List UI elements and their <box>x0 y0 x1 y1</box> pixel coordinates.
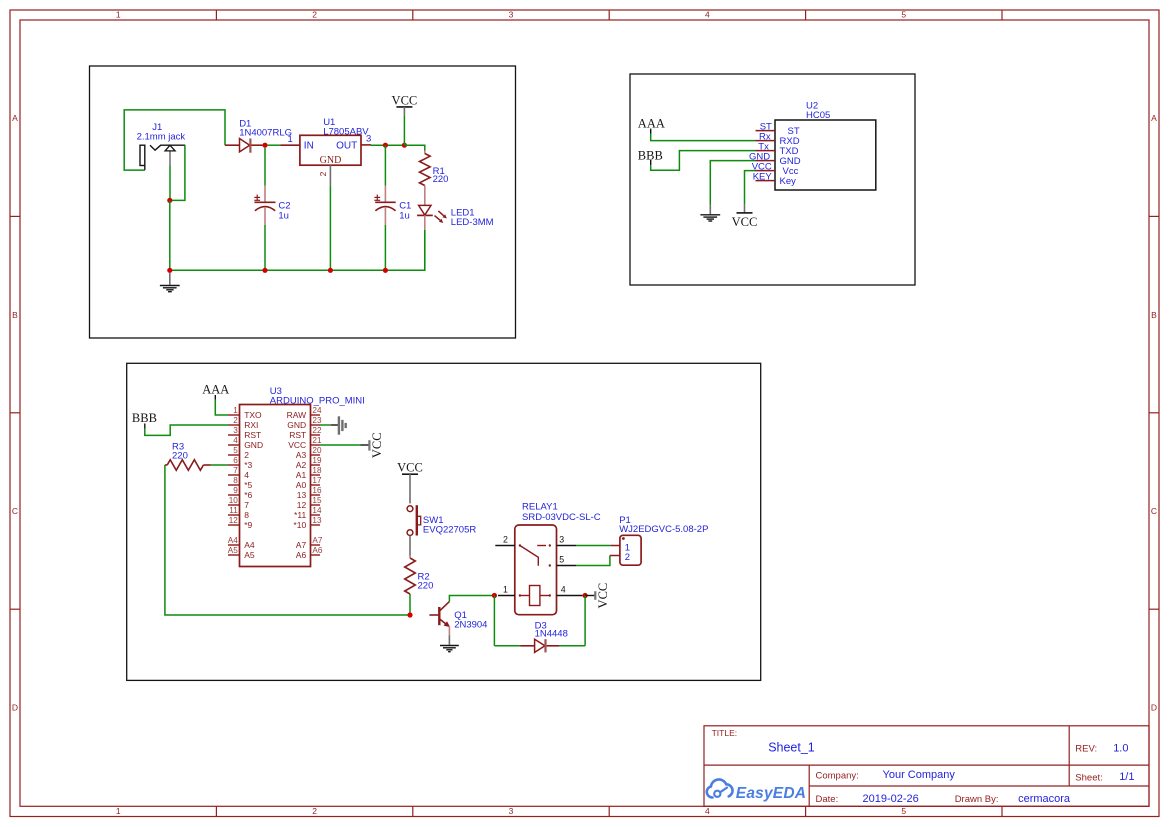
wire VCC to OUT net <box>403 115 405 145</box>
resistor R3 220 <box>165 441 188 465</box>
svg-text:GND: GND <box>287 420 306 430</box>
svg-text:8: 8 <box>233 476 238 485</box>
pin 13 *10 of U3 <box>293 516 322 530</box>
transistor Q1 2N3904 <box>429 602 487 631</box>
svg-text:21: 21 <box>312 436 322 445</box>
svg-text:12: 12 <box>229 516 239 525</box>
switch SW1 EVQ22705R <box>407 505 476 535</box>
svg-text:A: A <box>12 113 18 123</box>
svg-text:20: 20 <box>312 446 322 455</box>
svg-text:B: B <box>1151 310 1157 320</box>
pin 10 7 of U3 <box>228 496 249 510</box>
wire AAA to pin 1 <box>215 400 228 415</box>
pin GND of U2 <box>756 160 776 162</box>
node VCC junction <box>402 143 407 148</box>
svg-text:IN: IN <box>304 141 314 152</box>
svg-text:*9: *9 <box>244 520 252 530</box>
resistor R2 220 <box>409 556 411 559</box>
svg-text:VCC: VCC <box>392 94 418 108</box>
svg-text:A1: A1 <box>296 470 307 480</box>
pin Key of U2 <box>756 180 776 182</box>
svg-text:RELAY1: RELAY1 <box>522 501 558 512</box>
svg-text:SRD-03VDC-SL-C: SRD-03VDC-SL-C <box>522 512 601 523</box>
svg-text:7: 7 <box>244 500 249 510</box>
svg-text:GND: GND <box>320 155 342 166</box>
svg-text:14: 14 <box>312 506 322 515</box>
pin 8 *5 of U3 <box>228 476 253 490</box>
svg-text:Company:: Company: <box>816 770 859 781</box>
svg-text:A6: A6 <box>312 546 322 555</box>
svg-text:A4: A4 <box>244 540 255 550</box>
svg-text:9: 9 <box>233 486 238 495</box>
net flag BBB (arduino) <box>132 411 157 429</box>
svg-text:A3: A3 <box>296 450 307 460</box>
svg-text:WJ2EDGVC-5.08-2P: WJ2EDGVC-5.08-2P <box>619 524 708 535</box>
svg-text:VCC: VCC <box>732 215 758 229</box>
svg-text:4: 4 <box>705 10 710 20</box>
wire AAA to RXD <box>651 134 756 141</box>
wire U1 GND to rail <box>329 185 331 270</box>
svg-text:2: 2 <box>318 171 328 176</box>
svg-text:A5: A5 <box>244 550 255 560</box>
pin 16 13 of U3 <box>297 486 322 500</box>
node relay pin1 junction <box>492 593 497 598</box>
svg-text:3: 3 <box>233 426 238 435</box>
svg-text:2: 2 <box>244 450 249 460</box>
wire BBB to TXD <box>651 151 756 171</box>
pin RXD of U2 <box>756 140 776 142</box>
svg-text:*3: *3 <box>244 460 252 470</box>
pin 5 of RELAY1 <box>557 554 577 565</box>
svg-text:10: 10 <box>229 496 239 505</box>
svg-text:1u: 1u <box>278 210 289 221</box>
node J1 junction <box>167 198 172 203</box>
EasyEDA logo <box>707 779 806 801</box>
wire SW1 to R2 <box>409 536 411 556</box>
svg-text:cermacora: cermacora <box>1018 793 1071 805</box>
svg-text:VCC: VCC <box>288 440 306 450</box>
svg-text:2: 2 <box>312 806 317 816</box>
svg-text:4: 4 <box>705 806 710 816</box>
pin 12 *9 of U3 <box>228 516 253 530</box>
svg-text:Drawn By:: Drawn By: <box>955 794 999 805</box>
bluetooth section box <box>630 74 915 285</box>
svg-text:2: 2 <box>503 534 508 544</box>
pin 9 *6 of U3 <box>228 486 253 500</box>
svg-text:1N4448: 1N4448 <box>535 629 568 640</box>
pin 4 of RELAY1 <box>557 584 583 595</box>
pin 6 *3 of U3 <box>228 456 253 470</box>
wire Q1 emitter lead <box>448 626 450 635</box>
power supply section box <box>90 66 516 338</box>
svg-text:1: 1 <box>503 584 508 594</box>
svg-text:A2: A2 <box>296 460 307 470</box>
pin A5 of U3 left <box>228 546 255 560</box>
svg-text:220: 220 <box>172 450 188 461</box>
IC U3 ARDUINO_PRO_MINI <box>240 386 365 566</box>
svg-text:EVQ22705R: EVQ22705R <box>423 525 476 536</box>
diode D1 1N4007RLG <box>225 118 292 152</box>
pin 2 GND stub of U1 <box>329 165 331 185</box>
wire J1 tip down <box>169 166 171 201</box>
svg-text:*5: *5 <box>244 480 252 490</box>
wire GND of U2 <box>710 161 755 206</box>
svg-text:A: A <box>1151 113 1157 123</box>
svg-text:RST: RST <box>289 430 306 440</box>
svg-text:19: 19 <box>312 456 322 465</box>
wire J1 sleeve loop to D1 <box>124 110 225 170</box>
capacitor C2 1u <box>254 148 290 225</box>
pin 19 A2 of U3 <box>296 456 322 470</box>
ground symbol Q1 <box>440 635 459 651</box>
ground symbol HC05 <box>700 205 720 221</box>
svg-text:3: 3 <box>366 134 371 145</box>
svg-text:BBB: BBB <box>132 411 157 425</box>
wire R3 down to base rail <box>165 465 410 615</box>
connector J1 2.1mm jack <box>137 122 186 170</box>
pin A4 of U3 left <box>228 536 255 550</box>
svg-text:*11: *11 <box>294 510 306 520</box>
svg-text:A7: A7 <box>296 540 307 550</box>
svg-text:2: 2 <box>312 10 317 20</box>
svg-text:24: 24 <box>312 406 322 415</box>
pin TXD of U2 <box>756 150 776 152</box>
svg-text:5: 5 <box>901 10 906 20</box>
svg-text:A6: A6 <box>296 550 307 560</box>
svg-text:1.0: 1.0 <box>1113 743 1128 755</box>
wire relay pin4 to VCC <box>582 595 585 597</box>
svg-text:1: 1 <box>233 406 238 415</box>
node relay pin4 junction <box>583 593 588 598</box>
svg-text:2.1mm jack: 2.1mm jack <box>137 131 186 142</box>
svg-text:Date:: Date: <box>816 794 839 805</box>
pin 21 VCC of U3 <box>288 436 322 450</box>
svg-text:1: 1 <box>288 134 293 145</box>
svg-text:VCC: VCC <box>370 432 384 458</box>
node D1 cathode junction <box>262 143 267 148</box>
wire J1 right branch <box>170 145 185 200</box>
svg-text:TITLE:: TITLE: <box>712 728 738 738</box>
svg-text:1: 1 <box>116 806 121 816</box>
svg-text:D: D <box>12 703 18 713</box>
svg-text:4: 4 <box>244 470 249 480</box>
svg-text:TXO: TXO <box>244 410 262 420</box>
net flag AAA (arduino) <box>202 383 229 400</box>
svg-text:1u: 1u <box>399 210 410 221</box>
pin 11 8 of U3 <box>228 506 249 520</box>
power flag VCC above SW1 <box>397 461 423 504</box>
wire R3 to pin 6 <box>211 464 229 466</box>
svg-text:13: 13 <box>312 516 322 525</box>
wire J1 to ground rail <box>169 200 171 270</box>
svg-text:220: 220 <box>433 174 449 185</box>
svg-text:B: B <box>12 310 18 320</box>
svg-text:KEY: KEY <box>753 171 773 182</box>
wire LED1 to rail <box>424 230 426 270</box>
svg-text:2N3904: 2N3904 <box>454 620 487 631</box>
title block <box>704 726 1149 807</box>
svg-text:16: 16 <box>312 486 322 495</box>
pin 17 A0 of U3 <box>296 476 322 490</box>
svg-text:RST: RST <box>244 430 261 440</box>
wire C1 to rail <box>384 225 386 270</box>
power flag VCC pin 21 (rotated) <box>320 432 384 458</box>
power flag VCC top <box>392 94 418 116</box>
svg-text:11: 11 <box>229 506 238 515</box>
svg-text:23: 23 <box>312 416 322 425</box>
svg-text:A5: A5 <box>228 546 238 555</box>
pin 2 of RELAY1 <box>495 534 515 545</box>
svg-text:OUT: OUT <box>336 141 357 152</box>
net flag BBB (HC05) <box>638 148 663 165</box>
svg-text:*10: *10 <box>293 520 306 530</box>
svg-text:Sheet:: Sheet: <box>1075 773 1102 784</box>
svg-text:22: 22 <box>312 426 322 435</box>
svg-text:1: 1 <box>116 10 121 20</box>
pin 18 A1 of U3 <box>296 466 322 480</box>
pin 5 2 of U3 <box>228 446 249 460</box>
resistor R1 220 <box>404 145 424 153</box>
regulator U1 L7805ABV <box>300 117 369 166</box>
node base junction <box>407 612 412 617</box>
svg-text:*6: *6 <box>244 490 252 500</box>
wire C2 to rail <box>264 225 266 270</box>
svg-text:2: 2 <box>233 416 238 425</box>
pin 14 *11 of U3 <box>294 506 322 520</box>
ground symbol power <box>160 273 180 292</box>
wire relay pin4 down to D3 <box>584 596 586 646</box>
wire ground rail <box>170 230 425 270</box>
net flag AAA (HC05) <box>638 117 665 134</box>
node C1 top junction <box>383 143 388 148</box>
svg-text:EasyEDA: EasyEDA <box>736 785 806 802</box>
svg-text:3: 3 <box>509 806 514 816</box>
svg-text:4: 4 <box>233 436 238 445</box>
svg-text:GND: GND <box>244 440 263 450</box>
svg-text:1N4007RLG: 1N4007RLG <box>239 127 292 138</box>
svg-text:VCC: VCC <box>596 583 610 609</box>
wire U1 OUT <box>361 144 371 146</box>
pin 4 GND of U3 <box>228 436 263 450</box>
diode D3 1N4448 <box>494 621 585 653</box>
pin 1 TXO of U3 <box>228 406 262 420</box>
pin 22 RST of U3 <box>289 426 322 440</box>
pin 7 4 of U3 <box>228 466 249 480</box>
connector P1 WJ2EDGVC-5.08-2P <box>619 515 708 565</box>
svg-text:15: 15 <box>312 496 322 505</box>
pin 23 GND of U3 <box>287 416 322 430</box>
pin 20 A3 of U3 <box>296 446 322 460</box>
svg-text:5: 5 <box>233 446 238 455</box>
svg-text:RAW: RAW <box>287 410 307 420</box>
pin 2 RXI of U3 <box>228 416 258 430</box>
IC U2 HC05 <box>775 100 876 190</box>
svg-text:2: 2 <box>625 552 630 563</box>
svg-text:VCC: VCC <box>397 461 423 475</box>
ground flag pin 23 <box>320 416 346 434</box>
wire relay pin5 to P1 pin2 <box>576 556 620 566</box>
node rail junctions <box>167 268 172 273</box>
svg-text:8: 8 <box>244 510 249 520</box>
svg-text:Key: Key <box>780 176 797 187</box>
svg-text:1/1: 1/1 <box>1119 771 1134 783</box>
pin ST of U2 <box>756 130 776 132</box>
pin 3 RST of U3 <box>228 426 261 440</box>
pin 15 12 of U3 <box>297 496 322 510</box>
relay RELAY1 SRD-03VDC-SL-C <box>515 501 601 614</box>
svg-text:12: 12 <box>297 500 307 510</box>
svg-text:7: 7 <box>233 466 238 475</box>
arduino section box <box>127 363 761 680</box>
pin 3 of RELAY1 <box>557 534 577 545</box>
svg-text:3: 3 <box>559 534 564 544</box>
svg-text:18: 18 <box>312 466 322 475</box>
pin Vcc of U2 <box>756 170 776 172</box>
wire R2 to base rail <box>409 594 411 615</box>
svg-text:Sheet_1: Sheet_1 <box>768 740 815 754</box>
svg-text:2019-02-26: 2019-02-26 <box>863 793 919 805</box>
pin 1 of RELAY1 <box>498 584 515 595</box>
wire D1 to U1 IN <box>268 144 281 146</box>
svg-text:220: 220 <box>418 581 434 592</box>
svg-text:5: 5 <box>559 554 564 564</box>
svg-text:AAA: AAA <box>638 117 665 131</box>
svg-text:A0: A0 <box>296 480 307 490</box>
wire relay pin1 down to D3 <box>493 596 495 646</box>
svg-text:13: 13 <box>297 490 307 500</box>
wire Q1 collector to relay pin 1 <box>449 596 494 602</box>
power flag VCC at relay (rotated) <box>585 583 610 609</box>
svg-text:A4: A4 <box>228 536 238 545</box>
capacitor C1 1u <box>374 145 411 225</box>
svg-text:C: C <box>12 506 18 516</box>
svg-text:Your Company: Your Company <box>883 769 956 781</box>
svg-text:A7: A7 <box>312 536 322 545</box>
wire VCC of U2 <box>745 171 756 205</box>
LED1 LED-3MM <box>417 186 494 231</box>
pin 24 RAW of U3 <box>287 406 322 420</box>
svg-text:4: 4 <box>561 584 566 594</box>
svg-text:LED-3MM: LED-3MM <box>451 217 494 228</box>
svg-text:C: C <box>1151 506 1157 516</box>
power flag VCC (HC05, inverted) <box>732 204 758 228</box>
svg-text:AAA: AAA <box>202 383 229 397</box>
svg-text:RXI: RXI <box>244 420 258 430</box>
wire relay pin3 to P1 pin1 <box>576 545 620 547</box>
svg-text:3: 3 <box>509 10 514 20</box>
pin A7 of U3 right <box>296 536 323 550</box>
svg-text:REV:: REV: <box>1075 744 1097 755</box>
pin A6 of U3 right <box>296 546 323 560</box>
svg-text:6: 6 <box>233 456 238 465</box>
wire BBB to pin 2 <box>145 425 228 435</box>
svg-text:D: D <box>1151 703 1157 713</box>
svg-text:17: 17 <box>312 476 322 485</box>
svg-text:5: 5 <box>901 806 906 816</box>
